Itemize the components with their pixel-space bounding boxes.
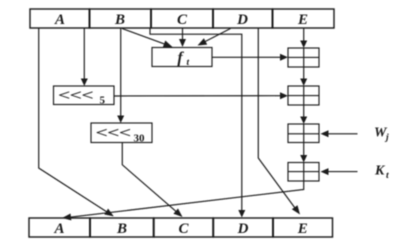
wire D to new E <box>258 29 300 215</box>
register A (top row) <box>30 9 90 28</box>
svg-text:<<<: <<< <box>96 125 131 142</box>
svg-text:<<<: <<< <box>58 87 93 104</box>
register A (bottom row) <box>29 218 90 237</box>
register B (top row) <box>90 9 152 28</box>
svg-text:D: D <box>236 12 248 28</box>
register B (bottom row) <box>90 218 154 237</box>
rotate left 5 box <box>54 86 115 107</box>
svg-text:5: 5 <box>100 95 106 107</box>
register C (bottom row) <box>154 218 214 237</box>
function box ft <box>152 48 212 69</box>
svg-text:t: t <box>187 58 190 68</box>
wire adder U3 to adder U4 <box>300 143 307 163</box>
wire ft to adder U1 <box>212 54 288 61</box>
svg-text:t: t <box>386 171 389 181</box>
svg-text:C: C <box>177 12 188 28</box>
wire Wj to adder U3 <box>321 130 358 137</box>
svg-text:D: D <box>237 221 249 237</box>
wire Kt to adder U4 <box>321 168 358 175</box>
register E (bottom row) <box>273 218 333 237</box>
register D (top row) <box>213 9 273 28</box>
wire B to ROTL30 <box>117 29 124 124</box>
wire ROTL5 to adder U2 <box>114 92 288 99</box>
wire adder U4 to new A <box>62 181 304 220</box>
rotate left 30 box <box>91 123 152 145</box>
adder U2 <box>288 86 319 105</box>
svg-text:A: A <box>54 12 65 28</box>
register C (top row) <box>151 9 213 28</box>
svg-text:B: B <box>114 12 125 28</box>
svg-text:C: C <box>178 221 189 237</box>
wire C to new D <box>150 29 245 218</box>
svg-text:30: 30 <box>134 133 146 145</box>
svg-text:A: A <box>53 221 64 237</box>
wire D to ft <box>198 29 231 46</box>
wire adder U1 to adder U2 <box>300 67 307 86</box>
adder U1 <box>288 48 319 67</box>
label Kt <box>374 164 389 182</box>
adder U4 <box>288 163 319 182</box>
svg-text:B: B <box>116 221 127 237</box>
wire E to adder U1 <box>300 29 307 49</box>
wire C to ft <box>179 29 186 48</box>
register D (bottom row) <box>213 218 273 237</box>
svg-text:K: K <box>374 164 386 179</box>
svg-text:E: E <box>297 12 308 28</box>
wire A to ROTL5 <box>81 29 88 87</box>
wire B to ft <box>122 29 173 48</box>
adder U3 <box>288 124 319 143</box>
wire adder U2 to adder U3 <box>300 105 307 124</box>
svg-text:E: E <box>297 221 308 237</box>
wire A to new B <box>39 29 114 217</box>
wire ROTL30 to new C <box>122 143 182 218</box>
register E (top row) <box>273 9 335 28</box>
label Wj <box>374 126 389 144</box>
